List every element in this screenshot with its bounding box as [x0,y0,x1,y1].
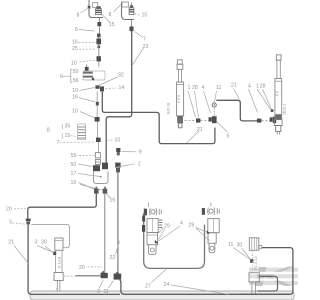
port dot (bottom-right) [250,259,253,263]
svg-text:15: 15 [109,22,115,28]
label 32 [99,73,124,86]
label 29 (left) [159,224,170,240]
washer stack [159,220,163,228]
hose 20 (upper run) [28,194,97,219]
small hose at cylinder top [32,225,70,248]
label 25 [72,46,97,52]
svg-text:{: { [62,134,64,140]
cylinder 2 (right) [274,55,282,126]
svg-text:11: 11 [104,289,109,295]
label 29 (right) [189,223,210,241]
svg-text:35: 35 [65,124,71,130]
fitting at hose 5 end [257,119,270,123]
hose loop (cylinder 2 outer) [240,248,293,295]
fitting on stem [96,122,101,153]
labels 1 28 4 11 [188,85,222,118]
lift link right [207,219,219,253]
label 8 (left) [77,8,89,19]
labels 11 30 (bottom-right) [228,242,252,261]
valve 15 (left) [88,6,102,15]
svg-text:23: 23 [143,44,149,50]
svg-text:30: 30 [237,243,243,249]
label 2 [116,162,141,168]
fitting cluster 50 [93,163,108,172]
big loop hose [144,213,205,268]
hose 21 (left) [102,92,215,144]
svg-text:29: 29 [189,223,195,229]
svg-text:15: 15 [142,13,148,19]
fitting on loop left [142,216,145,222]
svg-text:{: { [62,124,64,130]
label 10 (upper) [71,60,96,67]
left fitting column [96,34,101,57]
labels 6/50/56 bracket [60,69,79,84]
fitting 10 (upper) [97,56,101,66]
svg-text:10: 10 [72,108,78,114]
valve 15 (right) [129,3,134,15]
label 6 (top) [75,27,95,33]
labels 4 1 28 (right) [248,84,272,113]
svg-text:10: 10 [71,61,77,67]
labels 3 11 (bottom) [97,280,114,296]
svg-text:28: 28 [192,85,198,91]
label 24 [164,282,230,294]
plate stack bracket [78,124,86,140]
bottom-left cylinder body [54,238,63,292]
hose loop (inner) [258,276,278,291]
hose 27 (into band) [120,280,290,295]
svg-text:8: 8 [77,13,80,19]
valve block [82,65,105,81]
svg-text:14: 14 [119,85,125,91]
stem fittings below tee [95,92,100,122]
label 8 (right) [109,5,122,19]
ring fitting 11 [212,103,216,116]
hose 22 (long center vertical) [117,172,119,274]
svg-text:22: 22 [110,255,116,261]
svg-text:8: 8 [109,12,112,18]
label 9 [122,149,142,155]
dashed stem + marking [252,250,258,271]
bottom-right valve body [249,238,261,251]
svg-text:4: 4 [202,85,205,91]
svg-text:1: 1 [188,85,191,91]
watermark K logo [248,267,299,286]
svg-text:3: 3 [35,240,38,246]
label 27 [145,269,167,290]
label 16 [72,40,96,46]
bottom-right lower box [249,273,259,295]
svg-text:27: 27 [145,284,151,290]
hose 23 (long) [106,31,132,163]
label 22 [110,241,120,261]
label 50 [71,162,93,168]
lift link left [147,219,159,255]
label 17 [71,171,102,177]
label 23 [132,44,148,65]
label 14 [106,85,125,91]
label 10 (lower-left) [72,108,94,117]
svg-text:32: 32 [118,73,124,79]
center valve assembly small parts [95,153,100,165]
tee junction (right) [115,272,119,274]
svg-text:25: 25 [72,46,78,52]
nipple fittings below bracket [94,187,107,194]
label 35 bracket [62,124,71,131]
fitting below left bracket [97,18,101,34]
svg-text:20: 20 [6,207,12,213]
svg-text:6: 6 [60,74,63,80]
label 20 (center) [79,265,102,271]
svg-text:55: 55 [71,153,77,159]
svg-text:10: 10 [71,180,77,186]
port dot (bottom-left cylinder) [53,252,56,255]
elbow fitting 7 [130,20,134,31]
svg-text:30: 30 [41,240,47,246]
svg-text:15: 15 [65,133,71,139]
label 15 (right) [135,13,148,19]
hose 24 (left vertical into band) [28,224,120,294]
fitting 2 [115,163,120,173]
watermark band [30,291,294,300]
svg-text:7: 7 [143,37,146,43]
label 20 (left) [6,207,26,213]
label 10 (center) [107,138,121,144]
labels 3 30 (left cylinder) [35,240,55,254]
label 5 (left) [9,220,24,226]
label 4 (bottom-center) [159,221,184,242]
label 10 (mid) [72,88,94,95]
hose 5 (short right) [216,100,257,121]
tee junction (left) [64,271,108,278]
label 7 [135,32,147,43]
label 5 (center) [217,122,230,140]
label 21 (right) [231,83,240,100]
svg-text:7: 7 [57,140,60,146]
svg-text:50: 50 [73,69,79,75]
svg-text:10: 10 [115,138,121,144]
svg-text:20: 20 [79,265,85,271]
svg-text:5: 5 [227,134,230,140]
label 15 bracket [62,133,78,140]
svg-text:16: 16 [72,94,78,100]
pivot bolt left [144,203,161,216]
valve bracket U [94,172,109,184]
svg-text:3: 3 [97,289,100,295]
svg-text:28: 28 [260,84,266,90]
label 55 [71,153,95,159]
svg-text:11: 11 [216,85,221,91]
tee fitting 14 [95,85,104,91]
hose from right nipple down [104,194,106,272]
svg-text:8: 8 [47,128,50,134]
label 21 (hose leader) [187,127,203,143]
svg-text:24: 24 [164,282,170,288]
top-left mounting bracket [89,0,103,18]
svg-text:9: 9 [139,149,142,155]
svg-text:B20.18: B20.18 [167,103,171,114]
elbow fitting 21 [209,116,217,123]
svg-text:F1.0.13: F1.0.13 [253,256,258,270]
svg-text:50: 50 [71,162,77,168]
svg-text:16: 16 [72,40,78,46]
svg-text:8.10.8: 8.10.8 [57,256,62,268]
cylinder 1 port dashes [185,118,209,122]
label 21 (bottom-left) [8,239,28,263]
svg-text:11: 11 [228,242,233,248]
label 16 (mid) [72,94,95,102]
label 15 (left) [102,15,115,29]
label 10 (bottom-left col) [71,180,103,190]
label 7 (lower) [57,140,97,146]
svg-text:2: 2 [138,162,141,168]
hose eye fitting 9 [116,148,120,155]
svg-text:6: 6 [75,27,78,33]
svg-text:4: 4 [180,221,183,227]
svg-text:1B20.1: 1B20.1 [283,104,287,115]
svg-text:1: 1 [256,84,259,90]
svg-text:10: 10 [72,88,78,94]
svg-text:21: 21 [231,83,237,89]
top-right mounting bracket [122,2,135,20]
pivot bolt right [202,203,219,215]
label 16 (nipple) [107,194,116,204]
svg-text:5: 5 [9,220,12,226]
svg-text:21: 21 [8,239,14,245]
cylinder 1 (center) [177,60,184,116]
union fitting 5 [26,219,31,225]
svg-text:56: 56 [73,78,79,84]
svg-text:17: 17 [71,171,77,177]
svg-text:4: 4 [248,84,251,90]
elbow at cylinder 2 [270,109,277,123]
